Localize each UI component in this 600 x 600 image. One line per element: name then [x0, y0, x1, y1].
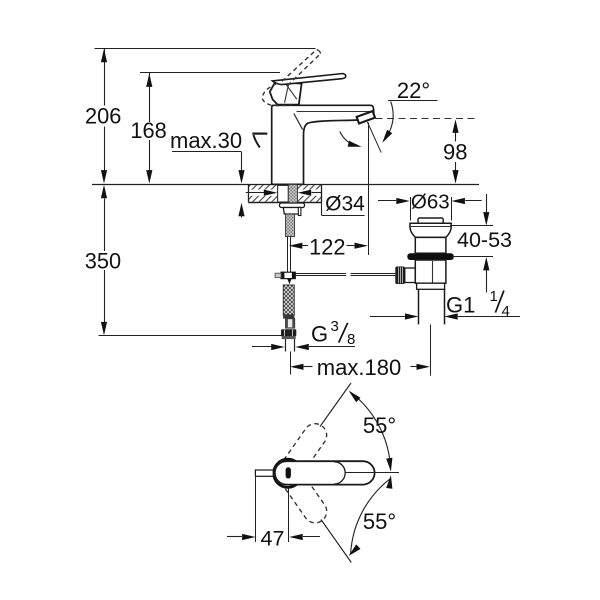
label 55deg lower — [363, 509, 396, 534]
dimension max.180 line with arrows — [290, 364, 430, 370]
svg-text:22°: 22° — [397, 78, 430, 103]
faucet body — [272, 105, 374, 184]
label G3/8 — [311, 318, 355, 348]
spout centerline dashed — [376, 118, 480, 120]
washer — [280, 203, 305, 208]
svg-text:122: 122 — [309, 234, 345, 259]
svg-text:55°: 55° — [363, 509, 396, 534]
waste plunger stem — [432, 261, 434, 288]
svg-text:4: 4 — [502, 303, 510, 320]
svg-text:98: 98 — [443, 140, 467, 165]
label 122 — [309, 234, 345, 259]
label 350 — [85, 249, 121, 274]
spout crease — [294, 113, 303, 129]
svg-text:G: G — [311, 322, 328, 347]
label max.30 — [170, 128, 242, 153]
water stream 22deg diagonal — [367, 122, 381, 153]
waste centerline — [430, 324, 432, 375]
label max.180 — [317, 355, 401, 380]
dimension D34 leader — [322, 193, 365, 216]
dimension 40-53 vertical arrows — [483, 194, 489, 293]
dimension 168 top extension line — [140, 72, 280, 74]
dimension 206 top extension line — [95, 48, 316, 50]
spout inner edge line — [297, 111, 373, 113]
dimension 350 vertical line with arrows — [101, 185, 107, 336]
threaded stud upper — [288, 184, 297, 204]
svg-text:1: 1 — [490, 288, 498, 305]
dimension 98 vertical line with arrows — [452, 119, 458, 183]
dimension G3/8 arrows — [252, 344, 355, 350]
handle lever blade — [272, 74, 346, 85]
plan faucet body circle — [274, 459, 302, 487]
upper 55deg line — [320, 383, 351, 427]
svg-text:G1: G1 — [446, 292, 475, 317]
lower 55deg arc — [349, 475, 393, 556]
plan centerline — [345, 472, 399, 474]
extension line below hose — [290, 352, 292, 375]
svg-text:47: 47 — [261, 526, 285, 550]
waste rod housing — [405, 268, 416, 283]
dimension D63 arrows — [378, 198, 482, 204]
dimension 206 vertical line with arrows — [101, 48, 107, 183]
pop-up rod horizontal left segment — [295, 274, 346, 276]
label D34 — [325, 192, 365, 215]
hose nut lower band — [282, 336, 296, 339]
waste flange — [410, 223, 451, 237]
dimension 168 vertical line with arrows — [146, 73, 152, 184]
label 22deg underline — [388, 100, 438, 102]
hose collar — [283, 315, 294, 319]
dimension 47 line with arrows — [227, 534, 320, 540]
waste seal ring — [407, 253, 454, 260]
svg-text:max.180: max.180 — [317, 355, 401, 380]
waste tailpipe — [419, 289, 445, 324]
plan handle swing dashed lower — [272, 457, 331, 527]
handle knuckle — [270, 81, 302, 105]
label 55deg upper — [363, 413, 396, 438]
mounting nut — [283, 208, 301, 216]
svg-text:40-53: 40-53 — [457, 228, 512, 252]
svg-text:Ø34: Ø34 — [325, 192, 365, 215]
threaded stud lower — [286, 214, 295, 237]
temperature stop tab — [252, 134, 267, 148]
lower 55deg line — [321, 520, 351, 563]
pop-up rod vertical — [288, 237, 291, 273]
plan pivot slot — [286, 467, 291, 478]
plan pop-up rod — [255, 470, 273, 476]
hose nut — [281, 329, 296, 336]
dimension 40-53 extension lines — [450, 226, 493, 257]
label G1-1/4 — [446, 288, 510, 320]
svg-text:350: 350 — [85, 249, 121, 274]
plan handle inner end arc — [334, 462, 345, 484]
plan handle outline — [275, 461, 375, 484]
aerator — [357, 111, 375, 123]
label 206 — [85, 104, 121, 129]
label 47 — [261, 526, 285, 550]
deck hatching — [249, 185, 322, 202]
svg-text:3: 3 — [331, 318, 339, 335]
svg-text:max.30: max.30 — [170, 128, 242, 153]
svg-text:55°: 55° — [363, 413, 396, 438]
deck outline — [248, 184, 321, 202]
svg-text:8: 8 — [347, 331, 355, 348]
plan handle swing dashed upper — [272, 419, 331, 489]
dimension 47 extension lines — [256, 476, 289, 543]
dimension D63 extension lines — [411, 197, 452, 221]
pop-up rod connector — [275, 272, 295, 284]
dimension G1-1/4 line with arrows — [370, 313, 520, 319]
G3/8 nipple — [286, 339, 295, 351]
svg-text:Ø63: Ø63 — [411, 190, 450, 213]
dimension 122 line with arrows — [289, 243, 368, 249]
svg-text:168: 168 — [130, 118, 166, 143]
22deg arc with arrowhead — [382, 102, 393, 143]
upper 55deg arc — [349, 391, 393, 472]
dimension max.30 leader and arrows — [172, 152, 245, 218]
label D63 — [411, 190, 450, 213]
label 98 — [443, 140, 467, 165]
waste lower body — [415, 260, 446, 283]
flexible hose braid — [283, 285, 294, 315]
waste bottom plate — [417, 283, 445, 289]
mounting spacer in deck — [278, 185, 289, 202]
flow arc with arrowhead — [340, 132, 362, 147]
label 22deg — [397, 78, 430, 103]
label 168 — [130, 118, 166, 143]
pop-up rod horizontal right segment — [351, 274, 396, 276]
waste upper body — [415, 237, 446, 253]
waste top cap — [418, 218, 443, 223]
deck top surface line — [92, 184, 479, 186]
handle raised position dashed — [262, 50, 320, 106]
dimension 350 bottom extension line — [99, 335, 284, 337]
dimension 122 extension right — [368, 123, 370, 256]
label 40-53 — [457, 228, 512, 252]
svg-text:206: 206 — [85, 104, 121, 129]
dimension D34 arrows — [246, 190, 322, 196]
waste knurled knob — [395, 267, 405, 285]
hose cylinder — [286, 319, 295, 328]
